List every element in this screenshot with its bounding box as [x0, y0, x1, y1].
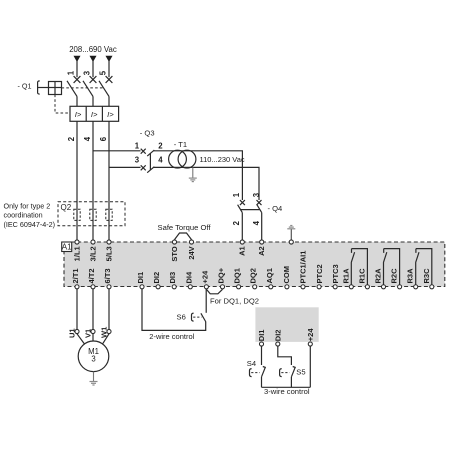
- PE stem: [290, 229, 292, 240]
- svg-text:1: 1: [232, 192, 241, 197]
- terminal R1A: [349, 285, 353, 289]
- blade Q4-3: [257, 205, 262, 213]
- svg-text:COM: COM: [282, 266, 291, 284]
- terminal 1/L1: [75, 240, 79, 244]
- fuse F1 dashed: [74, 209, 80, 220]
- svg-text:2: 2: [232, 220, 241, 225]
- terminal A2: [260, 240, 264, 244]
- A1 label box: [62, 242, 72, 252]
- STO bracket: [175, 233, 192, 240]
- Q1 link wire: [38, 87, 49, 89]
- svg-text:I>: I>: [107, 110, 114, 119]
- svg-text:4: 4: [158, 155, 163, 164]
- wire 4 down to drive: [92, 121, 94, 240]
- wire Q3-2 over T1 to Q4 pole1: [154, 151, 243, 200]
- svg-text:+24: +24: [306, 328, 315, 342]
- wire pole3 to I>: [108, 96, 110, 106]
- svg-text:S5: S5: [296, 367, 305, 376]
- wire pole1 to I>: [76, 96, 78, 106]
- I> trip unit boxes: [70, 106, 119, 121]
- svg-text:PTC1/AI1: PTC1/AI1: [299, 251, 308, 284]
- svg-text:- Q4: - Q4: [268, 204, 283, 213]
- drive A1 gray body: [64, 242, 445, 287]
- svg-text:3: 3: [135, 155, 140, 164]
- svg-text:DI2: DI2: [152, 272, 161, 284]
- transformer T1: [169, 150, 187, 168]
- terminal 24V: [189, 240, 193, 244]
- bottom terminal labels: [71, 251, 431, 284]
- motor terminal labels: [67, 327, 108, 338]
- svg-text:U1: U1: [67, 328, 76, 338]
- wire L3 top: [108, 61, 110, 77]
- ground PE above drive: [287, 226, 295, 229]
- motor terminal circles: [75, 329, 111, 333]
- top terminal labels: [72, 246, 266, 261]
- svg-text:A1: A1: [62, 243, 72, 252]
- motor wire V1: [92, 289, 94, 329]
- svg-text:Q2: Q2: [61, 203, 72, 212]
- 3-wire terminal +24: [308, 342, 312, 346]
- 3-wire box labels: [257, 328, 315, 342]
- svg-text:S6: S6: [177, 312, 186, 321]
- contact X Q4-1: [240, 200, 245, 205]
- terminal A1: [240, 240, 244, 244]
- svg-text:PTC2: PTC2: [315, 264, 324, 283]
- terminal 3/L2: [91, 240, 95, 244]
- svg-text:208...690 Vac: 208...690 Vac: [69, 45, 117, 54]
- motor wire U1: [76, 289, 78, 329]
- contact X Q3-1: [141, 149, 146, 154]
- supply arrow L1: [74, 56, 81, 62]
- terminal 2/T1: [75, 285, 79, 289]
- svg-text:3: 3: [252, 192, 261, 197]
- relay R3 contact: [416, 249, 432, 285]
- svg-text:6/T3: 6/T3: [103, 268, 112, 283]
- svg-text:1: 1: [135, 142, 140, 151]
- blade S4: [262, 367, 266, 377]
- blade Q3-3: [147, 167, 154, 173]
- wire U1 to motor: [77, 334, 84, 344]
- wire S4 to bus: [261, 377, 263, 388]
- svg-text:4/T2: 4/T2: [87, 268, 96, 283]
- svg-text:I>: I>: [75, 110, 82, 119]
- terminal 4/T2: [91, 285, 95, 289]
- svg-text:2/T1: 2/T1: [71, 268, 80, 283]
- svg-text:- Q3: - Q3: [140, 128, 155, 137]
- svg-text:3/L2: 3/L2: [88, 246, 97, 261]
- svg-text:Safe Torque Off: Safe Torque Off: [158, 223, 212, 232]
- svg-text:- Q1: - Q1: [18, 81, 32, 90]
- terminal PTC1/AI1: [301, 285, 305, 289]
- wire L2 top: [92, 61, 94, 77]
- svg-text:1: 1: [67, 70, 76, 75]
- Q1 bracket: [38, 81, 40, 94]
- svg-text:DI2: DI2: [274, 330, 283, 342]
- svg-text:I>: I>: [91, 110, 98, 119]
- svg-text:R3C: R3C: [422, 268, 431, 284]
- svg-text:- T1: - T1: [174, 140, 187, 149]
- svg-text:A1: A1: [238, 246, 247, 256]
- svg-text:A2: A2: [257, 246, 266, 256]
- contact X Q3-3: [141, 165, 146, 170]
- svg-text:+24: +24: [200, 270, 209, 284]
- fuse F2 dashed: [90, 209, 96, 220]
- terminal circles top: [75, 240, 293, 244]
- svg-text:R1A: R1A: [341, 268, 350, 284]
- Q4 linkage: [240, 209, 260, 211]
- jumper +24 to DQ+: [206, 289, 222, 294]
- blade S5: [291, 367, 295, 377]
- terminal DQ1: [237, 285, 241, 289]
- terminal DI4: [188, 285, 192, 289]
- S4 actuator: [250, 369, 252, 377]
- terminal circles bottom: [75, 285, 434, 289]
- svg-text:R2C: R2C: [390, 268, 399, 284]
- 3-wire box circles: [259, 342, 312, 346]
- terminal R3C: [430, 285, 434, 289]
- branch wire to Q3 pole 3: [109, 166, 141, 168]
- svg-text:DQ+: DQ+: [217, 267, 226, 283]
- contact X pole1: [74, 76, 81, 83]
- svg-text:2-wire control: 2-wire control: [149, 332, 194, 341]
- S6 actuator: [192, 313, 194, 321]
- branch wire to Q3 pole 1: [93, 150, 141, 152]
- contact X pole2: [90, 76, 97, 83]
- wire 2 down to drive: [76, 121, 78, 240]
- wire Q4-2 to A1: [241, 213, 243, 240]
- wire L1 top: [76, 61, 78, 77]
- svg-text:6: 6: [99, 136, 108, 141]
- terminal DQ+: [220, 285, 224, 289]
- wire 6 down to drive: [108, 121, 110, 240]
- svg-text:5/L3: 5/L3: [104, 246, 113, 261]
- Q3 linkage: [149, 154, 151, 171]
- svg-text:V1: V1: [83, 329, 92, 338]
- svg-text:AQ1: AQ1: [265, 268, 274, 283]
- svg-text:Only for type 2: Only for type 2: [4, 201, 51, 210]
- svg-text:PTC3: PTC3: [331, 264, 340, 283]
- terminal DI2: [156, 285, 160, 289]
- ground T1: [189, 167, 197, 181]
- blade pole3: [99, 81, 109, 97]
- Q2 dashed box: [58, 202, 125, 226]
- svg-text:3: 3: [83, 70, 92, 75]
- Q1 linkage dashed horizontal: [62, 87, 105, 89]
- terminal R2A: [381, 285, 385, 289]
- wire DI2 to S5: [278, 346, 292, 365]
- motor wire W1: [108, 289, 110, 329]
- svg-text:3-wire control: 3-wire control: [264, 387, 310, 396]
- wire +24 to S6: [205, 289, 207, 313]
- bus 3-wire: [262, 386, 311, 388]
- S5 actuator: [280, 369, 282, 377]
- svg-text:2: 2: [67, 136, 76, 141]
- svg-text:5: 5: [99, 70, 108, 75]
- svg-text:STO: STO: [170, 246, 179, 261]
- wire DI1 3wire to S4: [261, 346, 263, 365]
- blade S6: [201, 313, 206, 322]
- contact X pole3: [106, 76, 113, 83]
- wire V1 to motor: [92, 334, 94, 341]
- svg-text:4: 4: [252, 220, 261, 225]
- terminal 6/T3: [107, 285, 111, 289]
- wire +24 3wire: [309, 346, 311, 387]
- supply arrow L3: [106, 56, 113, 62]
- svg-text:DI4: DI4: [184, 271, 193, 284]
- Q1 linkage dashed vertical: [55, 95, 70, 114]
- svg-text:For DQ1, DQ2: For DQ1, DQ2: [210, 297, 259, 306]
- motor terminal V1: [91, 329, 95, 333]
- terminal AQ1: [269, 285, 273, 289]
- blade Q4-1: [238, 205, 243, 213]
- terminal R1C: [365, 285, 369, 289]
- svg-text:DI3: DI3: [168, 272, 177, 284]
- terminal DI3: [172, 285, 176, 289]
- motor terminal U1: [75, 329, 79, 333]
- supply arrow L2: [90, 56, 97, 62]
- svg-text:DI1: DI1: [136, 272, 145, 284]
- 3-wire terminal DI2: [276, 342, 280, 346]
- wire Q4-4 to A2: [261, 213, 263, 240]
- svg-text:3: 3: [91, 355, 95, 364]
- 3-wire terminal DI1: [259, 342, 263, 346]
- svg-text:DQ1: DQ1: [233, 268, 242, 283]
- 3-wire control gray box: [255, 307, 318, 342]
- wire DI1 to S6: [142, 289, 206, 330]
- terminal +24: [204, 285, 208, 289]
- terminal R2C: [398, 285, 402, 289]
- svg-text:DI1: DI1: [257, 330, 266, 342]
- Q1 operator box: [49, 82, 62, 95]
- motor M1 circle: [78, 341, 109, 372]
- svg-text:W1: W1: [99, 327, 108, 338]
- svg-text:2: 2: [158, 142, 163, 151]
- svg-text:coordination: coordination: [4, 211, 43, 220]
- svg-text:S4: S4: [247, 359, 256, 368]
- terminal PTC3: [333, 285, 337, 289]
- wire Q3-4 under T1 to Q4 pole3: [154, 167, 259, 200]
- svg-text:R1C: R1C: [357, 268, 366, 284]
- terminal PE: [289, 240, 293, 244]
- svg-text:24V: 24V: [187, 246, 196, 259]
- terminal STO: [172, 240, 176, 244]
- blade pole1: [67, 81, 77, 97]
- ground motor: [90, 372, 98, 385]
- terminal 5/L3: [107, 240, 111, 244]
- svg-text:110...230 Vac: 110...230 Vac: [200, 155, 245, 164]
- terminal DQ2: [253, 285, 257, 289]
- blade Q3-1: [147, 150, 154, 156]
- svg-text:1/L1: 1/L1: [72, 246, 81, 261]
- fuse F3 dashed: [106, 209, 112, 220]
- relay R1 contact: [351, 249, 367, 285]
- wire pole2 to I>: [92, 96, 94, 106]
- terminal R3A: [414, 285, 418, 289]
- terminal PTC2: [317, 285, 321, 289]
- contact X Q4-3: [257, 200, 262, 205]
- svg-text:4: 4: [83, 136, 92, 141]
- svg-text:R2A: R2A: [374, 268, 383, 284]
- svg-text:(IEC 60947-4-2): (IEC 60947-4-2): [4, 220, 56, 229]
- motor terminal W1: [107, 329, 111, 333]
- wire W1 to motor: [103, 334, 109, 344]
- relay R2 contact: [384, 249, 400, 285]
- blade pole2: [83, 81, 93, 97]
- wire S5 to bus: [290, 377, 292, 388]
- svg-text:DQ2: DQ2: [249, 268, 258, 283]
- svg-text:R3A: R3A: [406, 268, 415, 284]
- terminal DI1: [140, 285, 144, 289]
- terminal COM: [285, 285, 289, 289]
